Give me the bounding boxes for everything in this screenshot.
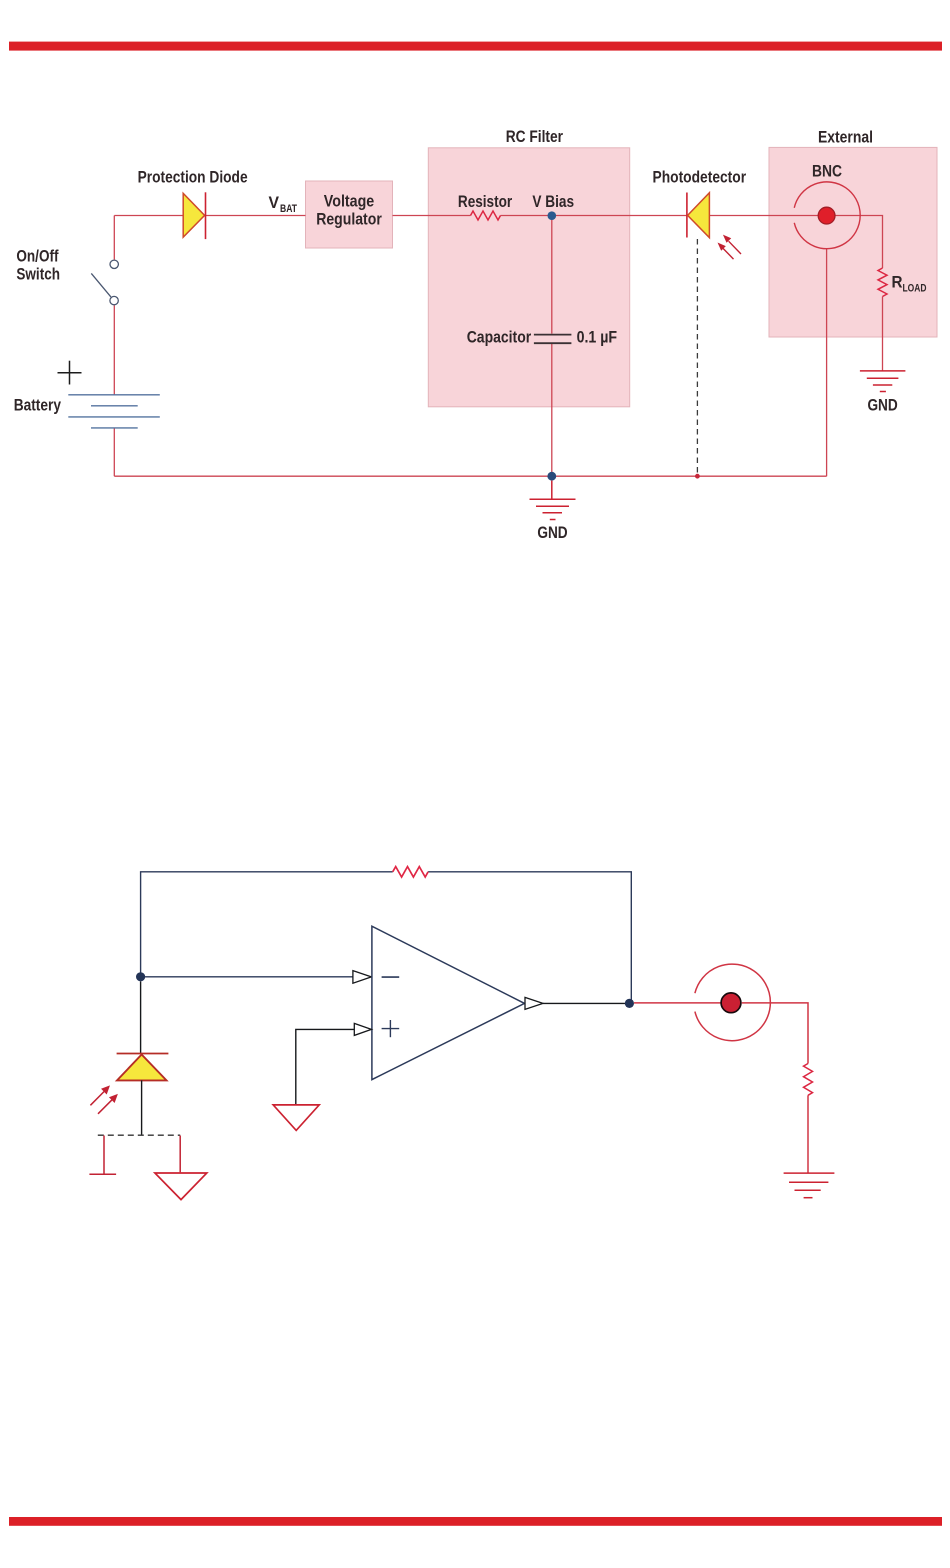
capacitor C1 0.1 uF [534,335,572,344]
battery plus sign [58,361,82,385]
feedback resistor [393,867,428,877]
wire: bottom ground rail [114,475,826,477]
plus symbol [382,1020,400,1037]
svg-text:Regulator: Regulator [316,210,382,229]
wire load resistor to GND3 [807,1095,809,1173]
wire node A down to photodiode [140,981,142,1053]
svg-text:Protection Diode: Protection Diode [138,167,248,186]
wire: switch to battery [113,305,115,394]
wire node to BNC2 [634,1002,731,1004]
photodiode light arrows [90,1087,116,1114]
wire: battery to bottom rail [113,428,115,476]
svg-text:Resistor: Resistor [458,192,513,211]
svg-text:LOAD: LOAD [903,283,927,295]
minus symbol [382,976,400,978]
node on bottom rail [547,472,556,481]
Voltage Regulator box [306,181,393,248]
node B dot [625,999,634,1008]
junction dot on rail [695,474,700,479]
wire: switch top vertical [113,216,115,260]
svg-text:Voltage: Voltage [324,192,374,211]
External box [769,147,937,337]
right package lead [179,1136,181,1173]
wire: BNC down to bottom rail [826,249,828,476]
svg-text:GND: GND [537,523,567,542]
svg-text:0.1 µF: 0.1 µF [577,327,618,346]
ground symbol GND2 (external) [860,371,906,392]
battery [68,395,160,428]
svg-text:BAT: BAT [280,203,297,215]
feedback wire top [141,872,632,1001]
svg-text:Switch: Switch [16,265,60,284]
BNC connector (bottom) [695,964,770,1041]
node V Bias [548,211,557,220]
wire + input to ground [296,1029,355,1105]
svg-text:On/Off: On/Off [16,246,58,265]
non-inverting input arrow [354,1023,371,1035]
node A dot [136,972,145,981]
svg-text:V Bias: V Bias [532,192,574,211]
ground symbol GND1 [530,481,576,520]
output arrow [525,997,543,1009]
left package lead [89,1136,116,1175]
op-amp U1 [372,926,525,1079]
svg-text:RC Filter: RC Filter [506,127,564,146]
dashed line photodetector to rail [696,239,698,474]
wire: V bias node down to capacitor [551,219,553,334]
svg-text:GND: GND [867,396,897,415]
BNC connector (top) [794,182,860,249]
output wire [543,1002,629,1004]
wire: capacitor to bottom rail [551,344,553,476]
top red bar [9,42,942,51]
protection diode D1 [183,192,205,239]
inverting input arrow [353,971,372,984]
svg-text:R: R [892,273,903,292]
ground triangle (photodiode) [155,1173,207,1200]
photodiode D3 [117,1054,169,1081]
photodetector D2 [687,193,710,238]
svg-text:V: V [269,193,280,212]
wire node to inverting input [141,976,353,978]
wire: main top horizontal V_BAT rail [114,215,818,217]
resistor (RC filter) [471,211,501,220]
svg-text:Capacitor: Capacitor [467,327,532,346]
on/off switch [91,260,118,305]
svg-text:BNC: BNC [812,161,842,180]
svg-text:Photodetector: Photodetector [653,167,747,186]
svg-text:External: External [818,128,873,147]
wire photodiode to dashed box [141,1080,143,1135]
load resistor (bottom) [804,1064,813,1096]
R_LOAD resistor [878,268,887,297]
dashed package top [98,1134,180,1136]
svg-text:Battery: Battery [14,395,62,414]
photodetector light arrows [719,236,741,259]
bottom red bar [9,1517,942,1526]
RC Filter box [428,148,629,407]
wire BNC2 to load resistor [742,1003,808,1064]
ground symbol GND3 [784,1173,835,1198]
wire: R_LOAD to GND [882,297,884,371]
ground triangle (non-inverting) [273,1105,319,1131]
wire: BNC to R_LOAD [835,216,882,269]
